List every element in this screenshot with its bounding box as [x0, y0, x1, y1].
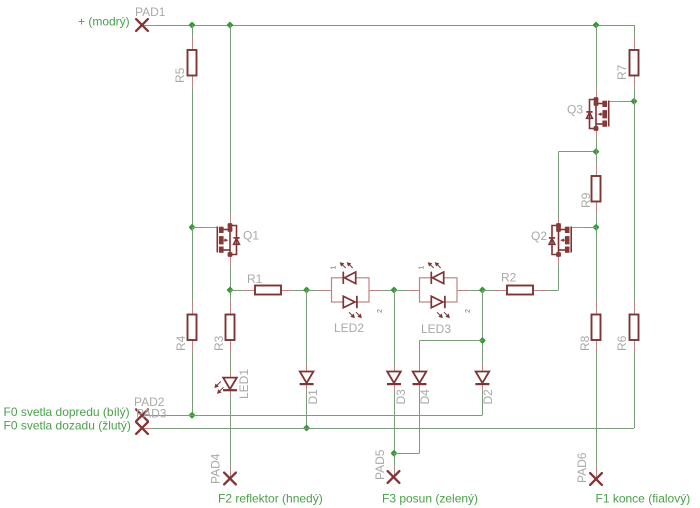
resistor R1: [255, 286, 281, 295]
wire junction to Q1 gate: [192, 227, 206, 229]
svg-text:R5: R5: [173, 67, 187, 83]
svg-text:R4: R4: [174, 335, 188, 351]
pin stubs R6: [634, 302, 636, 315]
node junction top rail at x=192: [188, 21, 195, 28]
wire LED3 right pin to R2 node: [470, 290, 482, 292]
wire R5 to gate-node of Q1: [192, 88, 194, 228]
svg-text:F1 konce (fialový): F1 konce (fialový): [596, 492, 691, 506]
wire R3 to LED1: [230, 352, 232, 372]
svg-text:R7: R7: [615, 64, 629, 80]
pin stubs R9: [596, 164, 598, 177]
wire LED1 cathode down to PAD4: [230, 391, 232, 467]
resistor R8: [592, 315, 601, 341]
LED LED1: [223, 378, 237, 391]
wire top power rail from PAD1 to right column: [142, 25, 634, 27]
wire D2 cathode down to F0-dopredu line end: [482, 391, 484, 415]
wire node to R2 left pin: [482, 290, 495, 292]
resistor R2: [507, 286, 533, 295]
pin stubs D2: [482, 366, 484, 372]
svg-text:PAD1: PAD1: [135, 5, 166, 19]
svg-text:2: 2: [377, 309, 384, 313]
svg-text:D4: D4: [418, 389, 432, 405]
svg-text:PAD4: PAD4: [209, 453, 223, 484]
wire node down to D1: [306, 290, 308, 366]
node junction D1 on F0-dozadu line: [303, 424, 310, 431]
diode D2: [475, 372, 489, 385]
wire D1 cathode down to F0-dozadu line: [306, 391, 308, 428]
svg-text:LED3: LED3: [421, 322, 451, 336]
pin stubs D3: [394, 366, 396, 372]
svg-text:1: 1: [419, 266, 426, 270]
pin stub PAD2: [142, 415, 152, 417]
svg-text:F0 svetla dopredu (bílý): F0 svetla dopredu (bílý): [4, 405, 130, 419]
diode D1: [300, 372, 314, 385]
wire rail down to Q3 drain: [596, 25, 598, 87]
wire net F0 svetla dopredu from PAD2 to D2: [142, 415, 482, 417]
pin stubs Q2 drain/source: [558, 218, 560, 226]
node junction D3 / D4 / PAD5 at (394,453): [390, 450, 397, 457]
pin stub PAD1: [142, 25, 154, 27]
node junction LED3 / R2 / D2-branch at (482.4,290): [479, 286, 486, 293]
node junction top rail at x=230: [226, 21, 233, 28]
svg-text:Q3: Q3: [567, 103, 583, 117]
svg-text:R1: R1: [247, 272, 263, 286]
resistor R5: [188, 50, 197, 76]
pin stub Q3 gate: [609, 101, 622, 103]
pin stub PAD6: [596, 466, 598, 479]
wire Q3 gate to R7 node: [622, 101, 635, 103]
pin stubs R1: [243, 290, 255, 292]
wire R6 down to F0-dozadu line end corner: [634, 352, 636, 428]
pin stub PAD5: [394, 465, 396, 477]
wire D4 branch vertical down to D4 anode: [419, 341, 421, 367]
node junction Q1 gate / R5 / R4 at (192,227): [188, 224, 195, 231]
wire node down through D4-branch junction to D2: [482, 290, 484, 366]
node junction Q3 source / Q2 drain / R9 at (596,151.6): [592, 148, 599, 155]
wire node to LED3 left pin: [394, 290, 407, 292]
wire node down to R8: [596, 227, 598, 302]
wire D3 cathode down to PAD5 node: [394, 391, 396, 453]
pin stubs Q1 drain/source: [230, 213, 232, 226]
svg-text:PAD3: PAD3: [136, 407, 167, 421]
transistor Q3: [586, 100, 608, 129]
pin stubs LED2: [319, 290, 332, 292]
svg-text:R3: R3: [212, 335, 226, 351]
svg-text:D3: D3: [394, 389, 408, 405]
wire node down to D3: [394, 290, 396, 366]
wire D4 branch horizontal: [420, 340, 483, 342]
wire rail to R5: [192, 25, 194, 39]
svg-text:PAD5: PAD5: [373, 449, 387, 480]
pad PAD4: [224, 473, 236, 485]
pin stubs LED1: [230, 372, 232, 378]
pin stub PAD3: [142, 428, 152, 430]
wire R2 right pin to corner: [545, 290, 559, 292]
wire R1 right pin to LED2 node: [293, 290, 307, 292]
wire node to LED2 left pin: [307, 290, 319, 292]
wire junction down to PAD5: [394, 453, 396, 465]
svg-text:1: 1: [331, 266, 338, 270]
node junction R9 / Q2 gate / R8 at (596,227.3): [592, 224, 599, 231]
diode D3: [387, 372, 401, 385]
wire node down to R6: [634, 101, 636, 302]
pad PAD5: [388, 471, 400, 483]
wire corner right to R9 node: [559, 151, 597, 153]
svg-text:R2: R2: [501, 271, 517, 285]
svg-text:2: 2: [465, 309, 472, 313]
node junction LED2 / LED3 / D3 at (394,290): [390, 286, 397, 293]
wire R4 down to F0-dopredu line: [192, 352, 194, 415]
pin stubs R3: [230, 302, 232, 315]
svg-text:D2: D2: [481, 389, 495, 405]
svg-text:D1: D1: [306, 389, 320, 405]
pin stubs R2: [495, 290, 507, 292]
pad PAD6: [590, 473, 602, 485]
svg-text:F3 posun (zelený): F3 posun (zelený): [382, 492, 478, 506]
pin stubs LED3: [407, 290, 420, 292]
svg-text:F2 reflektor (hnedý): F2 reflektor (hnedý): [218, 492, 323, 506]
resistor R4: [188, 315, 197, 341]
pin stubs R4: [192, 302, 194, 315]
pin stubs R5: [192, 38, 194, 50]
wire top-right corner down to R7: [634, 25, 636, 39]
transistor Q1: [217, 226, 239, 255]
LED pair LED3: [420, 278, 458, 302]
node junction Q1/R1/R3 at (230,290): [226, 286, 233, 293]
pin stubs D4: [419, 366, 421, 372]
pin stub PAD4: [230, 466, 232, 479]
diode D4: [413, 372, 427, 385]
wire Q3 source down to junction: [596, 133, 598, 152]
pin stub Q1 gate: [205, 227, 217, 229]
wire R7 bottom to node: [634, 88, 636, 101]
wire R8 down to PAD6: [596, 352, 598, 467]
node junction R7 / Q3 gate / R6 at (634,101.3): [630, 98, 637, 105]
svg-text:PAD6: PAD6: [575, 452, 589, 483]
pin stubs Q3 drain/source: [596, 87, 598, 100]
wire R9 down to Q2 gate node: [596, 214, 598, 227]
svg-text:LED1: LED1: [237, 369, 251, 399]
pad PAD3: [136, 422, 148, 434]
resistor R3: [226, 315, 235, 341]
resistor R9: [592, 176, 601, 202]
svg-text:Q1: Q1: [243, 229, 259, 243]
svg-text:R8: R8: [578, 335, 592, 351]
transistor Q2: [549, 226, 571, 255]
pin stubs D1: [306, 366, 308, 372]
wire R1 node to R1 left pin: [230, 290, 243, 292]
wire Q2 gate to node: [584, 227, 596, 229]
pin stubs R8: [596, 302, 598, 315]
wire rail down to Q1 drain: [230, 25, 232, 213]
wire Q1 source down to R1 node: [230, 266, 232, 290]
svg-text:LED2: LED2: [334, 321, 364, 335]
wire node down to R3: [230, 290, 232, 303]
svg-text:+ (modrý): + (modrý): [78, 15, 130, 29]
svg-text:Q2: Q2: [531, 229, 547, 243]
wire Q2 drain up to corner: [558, 152, 560, 218]
svg-text:R9: R9: [579, 192, 593, 208]
wire junction down to R4: [192, 227, 194, 302]
node junction R4 on F0-dopredu line: [188, 412, 195, 419]
resistor R6: [630, 315, 639, 341]
wire net F0 svetla dozadu from PAD3 to R6 corner: [142, 428, 634, 430]
wire D4 branch up to D4 cathode: [419, 391, 421, 453]
pin stub Q2 gate: [571, 227, 584, 229]
wire LED2 right pin to LED3 node: [382, 290, 395, 292]
pad PAD1: [136, 19, 148, 31]
LED pair LED2: [332, 278, 370, 302]
wire junction right toward D4 branch: [394, 453, 420, 455]
svg-text:F0 svetla dozadu (žlutý): F0 svetla dozadu (žlutý): [4, 419, 131, 433]
wire junction down to R9: [596, 152, 598, 164]
pad PAD2: [136, 409, 148, 421]
resistor R7: [630, 50, 639, 76]
node junction D4 branch at (482.4,340.5): [479, 337, 486, 344]
wire corner up to Q2 source: [558, 263, 560, 290]
pin stubs R7: [634, 38, 636, 50]
node junction top rail at x=596: [592, 21, 599, 28]
svg-text:R6: R6: [615, 335, 629, 351]
node junction R1 / LED2 / D1 at (306.6,290): [303, 286, 310, 293]
